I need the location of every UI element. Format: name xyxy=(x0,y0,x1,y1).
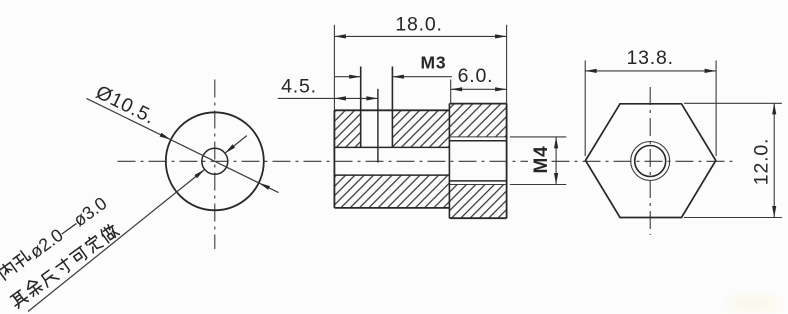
arrowhead 18.0 right xyxy=(495,34,507,38)
dimension line 6.0 xyxy=(451,88,507,90)
hatch bottom block xyxy=(334,175,449,208)
arrowhead 4.5 right xyxy=(366,96,378,100)
svg-text:18.0.: 18.0. xyxy=(395,14,442,36)
extension line 12.0 top xyxy=(684,102,782,104)
arrowhead inner hole SW xyxy=(194,169,204,178)
svg-text:4.5.: 4.5. xyxy=(281,76,317,98)
tail line inner hole NE xyxy=(225,136,247,154)
note line1 内孔ø2.0—ø3.0 xyxy=(0,193,111,284)
arrowhead 13.8 right xyxy=(705,69,717,73)
M3 slot left edge xyxy=(360,67,362,148)
dimension line M3 right part (leader) xyxy=(392,76,452,78)
hexagon outline xyxy=(586,104,716,218)
dimension line 4.5 xyxy=(278,97,378,99)
centerline vertical (left view) xyxy=(214,80,216,250)
dimension line Ø10.5 (diameter leader) xyxy=(87,98,279,192)
hex section top edge xyxy=(449,103,506,105)
extension line left (18.0/4.5) xyxy=(333,25,335,111)
svg-text:6.0.: 6.0. xyxy=(458,65,494,87)
body top edge xyxy=(334,109,449,111)
arrowhead 4.5 left xyxy=(334,96,346,100)
hatch top-mid block xyxy=(392,110,449,147)
note line2 其余尺寸可定做 xyxy=(8,222,120,309)
hatch hex bottom block xyxy=(449,185,506,219)
inner hole circle xyxy=(202,148,228,174)
dimension line M4 xyxy=(555,137,557,185)
arrowhead 12.0 down xyxy=(772,206,776,218)
centerline vertical (hex view) xyxy=(649,87,651,235)
svg-text:M3: M3 xyxy=(421,53,447,73)
arrowhead 18.0 left xyxy=(334,34,346,38)
bore bottom line xyxy=(334,174,449,176)
outer circle body Ø10.5 xyxy=(166,112,264,210)
svg-text:12.0.: 12.0. xyxy=(751,138,773,185)
svg-text:M4: M4 xyxy=(531,146,552,174)
arrowhead 6.0 left xyxy=(451,87,463,91)
dimension line 12.0 xyxy=(773,103,775,218)
M4 hole thread top thin line xyxy=(449,136,506,138)
hatch hex top block xyxy=(449,104,506,137)
dimension line 13.8 xyxy=(585,70,716,72)
extension line M4 top xyxy=(510,136,567,138)
extension line 12.0 bottom xyxy=(684,217,782,219)
centerline horizontal (common axis) xyxy=(118,160,736,162)
leader line inner hole (from note to hole) xyxy=(28,169,205,311)
arrowhead M3 right xyxy=(392,75,404,79)
M4 hole top line xyxy=(449,140,506,142)
arrowhead Ø10.5 lower-right xyxy=(259,183,270,190)
thread circle M4 (thin) xyxy=(631,142,670,181)
extension line right (18.0) xyxy=(506,25,508,104)
extension line M4 bottom xyxy=(510,184,567,186)
step vertical line xyxy=(448,104,450,219)
svg-text:13.8.: 13.8. xyxy=(627,47,674,69)
arrowhead M4 up xyxy=(554,137,558,149)
arrowhead 6.0 right xyxy=(495,87,507,91)
arrowhead inner hole NE xyxy=(225,144,235,153)
M4 hole bottom line xyxy=(449,180,506,182)
M3 hole centerline xyxy=(377,89,379,163)
arrowhead M3 left xyxy=(349,75,361,79)
body bottom edge xyxy=(334,207,449,209)
hex section bottom edge xyxy=(449,217,506,219)
M3 slot right edge xyxy=(391,67,393,148)
arrowhead 12.0 up xyxy=(772,103,776,115)
hole circle M4 xyxy=(635,146,666,177)
dimension line 18.0 xyxy=(334,35,506,37)
arrowhead M4 down xyxy=(554,173,558,185)
hex section right edge xyxy=(506,104,508,219)
dimension line M3 left part xyxy=(334,76,360,78)
M4 hole thread bottom thin line xyxy=(449,184,506,186)
hatch top-left block xyxy=(334,110,360,147)
bore top line xyxy=(334,146,449,148)
extension line 13.8 right xyxy=(715,60,717,156)
arrowhead Ø10.5 upper-left xyxy=(160,133,171,140)
faint smudge xyxy=(725,294,781,312)
arrowhead 13.8 left xyxy=(585,69,597,73)
body left edge xyxy=(333,110,335,208)
extension line 6.0 left xyxy=(450,80,452,104)
label M4 background xyxy=(528,143,549,179)
extension line 13.8 left xyxy=(584,60,586,156)
